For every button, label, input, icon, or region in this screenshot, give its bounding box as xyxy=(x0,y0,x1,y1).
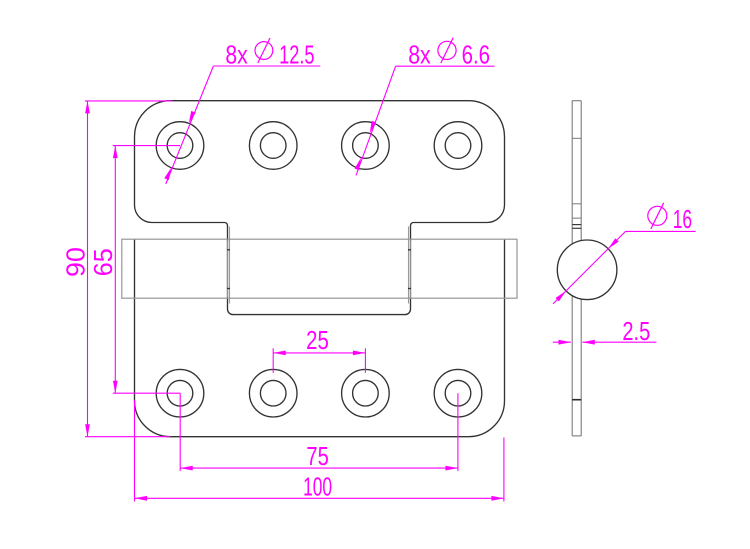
svg-text:65: 65 xyxy=(88,248,118,276)
svg-text:100: 100 xyxy=(303,471,332,501)
svg-text:6.6: 6.6 xyxy=(462,39,491,69)
svg-text:12.5: 12.5 xyxy=(279,39,314,69)
svg-text:8x: 8x xyxy=(225,39,247,69)
svg-text:2.5: 2.5 xyxy=(622,316,650,346)
svg-text:25: 25 xyxy=(306,325,329,355)
svg-text:90: 90 xyxy=(60,247,90,277)
svg-text:75: 75 xyxy=(306,441,328,471)
svg-text:8x: 8x xyxy=(408,39,431,69)
svg-text:16: 16 xyxy=(673,204,692,234)
